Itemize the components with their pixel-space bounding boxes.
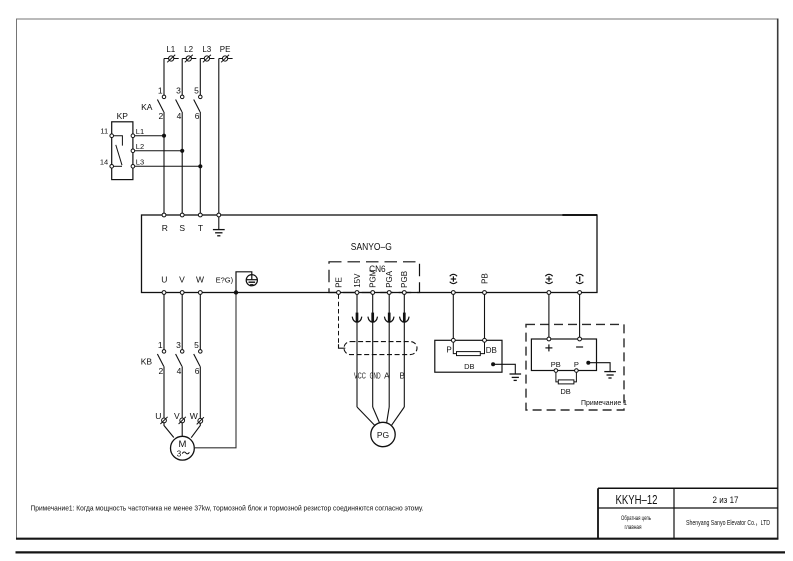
wire KA pole1 to inverter R (163, 112, 165, 215)
motor terminal V (174, 411, 186, 424)
svg-text:L2: L2 (136, 142, 144, 151)
svg-text:W: W (196, 275, 204, 285)
wire A into PG (387, 407, 390, 423)
svg-text:PGB: PGB (400, 271, 409, 288)
svg-text:5: 5 (194, 86, 199, 96)
svg-text:KKYH–12: KKYH–12 (616, 493, 658, 507)
svg-text:U: U (161, 275, 167, 285)
wire L2 drop to KA pole 2 (181, 59, 183, 96)
svg-text:L2: L2 (184, 45, 193, 54)
CN6 terminal PGM (371, 291, 375, 295)
brake resistor unit box (435, 340, 502, 372)
svg-text:V: V (174, 411, 180, 421)
svg-text:15V: 15V (353, 273, 362, 288)
contactor KA pole 2 (176, 95, 184, 112)
wire 15V to encoder (356, 294, 358, 407)
junction L3 (198, 164, 202, 168)
svg-text:L3: L3 (136, 158, 144, 167)
wire U into motor (164, 423, 174, 438)
svg-text:Примечание 1: Примечание 1 (581, 400, 627, 407)
svg-text:Shenyang Sanyo Elevator Co.，LT: Shenyang Sanyo Elevator Co.，LTD (686, 518, 770, 527)
relay KP box (112, 122, 133, 180)
brake box terminal P (446, 338, 455, 354)
wire (-) to external brake unit (579, 294, 581, 337)
wire PGM to encoder (372, 294, 374, 407)
svg-text:V: V (179, 275, 185, 285)
wire L1 drop to KA pole 1 (163, 59, 165, 96)
contactor KA pole 3 (194, 95, 202, 112)
svg-text:PE: PE (220, 45, 231, 54)
PE terminal into box (217, 213, 221, 217)
svg-text:3: 3 (176, 86, 181, 96)
svg-text:L3: L3 (202, 45, 211, 54)
svg-text:2: 2 (158, 366, 163, 376)
external brake PB terminal (554, 369, 558, 373)
svg-text:главная: главная (625, 524, 642, 531)
svg-text:M: M (178, 439, 186, 450)
terminal PB (483, 291, 487, 295)
svg-text:A: A (384, 372, 390, 381)
svg-text:Обратная цепь: Обратная цепь (621, 514, 651, 522)
wire KP L3 to T column (135, 165, 201, 167)
svg-text:Примечание1: Когда мощность ча: Примечание1: Когда мощность частотника н… (31, 503, 424, 512)
terminal T (198, 213, 203, 233)
terminal L3 (200, 45, 214, 62)
KP internal switch (114, 136, 123, 167)
svg-text:PB: PB (480, 273, 489, 284)
svg-text:5: 5 (194, 340, 199, 350)
wire E(G) to earth icon (236, 272, 252, 293)
svg-text:U: U (155, 411, 161, 421)
svg-text:W: W (190, 411, 198, 421)
KP pin 14 (100, 157, 114, 168)
wire KA pole2 to inverter S (181, 112, 183, 215)
svg-text:P: P (574, 360, 579, 369)
wire KB pole2 to motor V (181, 366, 183, 418)
motor M 3~ (171, 436, 195, 460)
wire KB pole1 to motor U (163, 366, 165, 418)
protective earth circle icon (246, 275, 257, 286)
wire PB to brake unit (484, 294, 486, 338)
wire (+) to external brake unit (548, 294, 550, 337)
KP pin L1 (131, 127, 144, 138)
wire brake box to ground (493, 364, 515, 374)
svg-text:P: P (446, 346, 451, 355)
wire GND into PG (373, 407, 380, 423)
terminal L2 (182, 45, 196, 62)
shielded cable dashed stadium (344, 342, 417, 355)
svg-text:SANYO–G: SANYO–G (351, 242, 392, 253)
terminal (+) left (451, 291, 455, 295)
external earth node (586, 361, 590, 365)
ground symbol at external box (604, 372, 616, 378)
svg-text:E?G): E?G) (216, 276, 234, 285)
terminal L1 (164, 45, 179, 62)
wire PGB to encoder (403, 294, 405, 407)
wire overlap on top edge (562, 214, 597, 216)
junction L1 (162, 134, 166, 138)
encoder PG (371, 422, 395, 446)
terminal PE (219, 45, 233, 62)
svg-text:1: 1 (158, 340, 163, 350)
terminal (-) label (576, 274, 583, 283)
motor terminal U (155, 411, 167, 424)
svg-text:R: R (162, 223, 168, 233)
contactor KB pole 1 (157, 350, 165, 367)
wire L3 drop to KA pole 3 (199, 59, 201, 96)
terminal (+) right (547, 291, 551, 295)
external brake terminal + (545, 337, 552, 351)
svg-text:PGM: PGM (369, 269, 378, 288)
svg-text:3: 3 (177, 449, 182, 458)
junction E(G) on box edge (234, 290, 238, 294)
wire KP L1 to R column (135, 135, 164, 137)
note 1 dashed box (526, 324, 624, 410)
wire W to KB pole 3 (199, 294, 201, 349)
plug connector on PGM wire (368, 313, 378, 323)
wire KP L2 to S column (135, 150, 183, 152)
terminal (-) (578, 291, 582, 295)
CN6 terminal PGA (387, 291, 391, 295)
wire KA pole3 to inverter T (199, 112, 201, 215)
svg-text:1: 1 (158, 86, 163, 96)
external resistor DB (558, 380, 574, 384)
svg-text:6: 6 (195, 111, 200, 121)
plug connector on 15V wire (352, 313, 362, 323)
svg-text:DB: DB (486, 346, 497, 355)
contactor KB pole 2 (176, 350, 184, 367)
resistor DB in brake box (457, 352, 481, 356)
svg-text:PGA: PGA (385, 270, 394, 288)
svg-text:PE: PE (334, 277, 343, 288)
terminal S (179, 213, 185, 233)
CN6 terminal PE (337, 291, 341, 295)
wire PE drop to inverter R-side ground (218, 59, 220, 216)
ground symbol at brake box (510, 374, 522, 380)
svg-text:PB: PB (551, 360, 561, 369)
ground symbol inside inverter (213, 217, 225, 236)
KP pin L3 (131, 158, 144, 169)
terminal (+) right label (545, 274, 552, 283)
brake box terminal DB (483, 338, 497, 355)
svg-text:14: 14 (100, 157, 108, 166)
svg-text:B: B (400, 372, 405, 381)
terminal U (161, 275, 167, 295)
wire W into motor (191, 423, 200, 438)
wire V into motor (181, 423, 183, 437)
svg-text:VCC: VCC (354, 372, 366, 381)
terminal R (162, 213, 168, 233)
CN6 terminal PGB (402, 291, 406, 295)
svg-text:L1: L1 (166, 45, 175, 54)
title block (598, 488, 778, 539)
KP pin 11 (100, 127, 113, 138)
plug connector on PGA wire (384, 313, 394, 323)
svg-text:DB: DB (560, 387, 570, 396)
dashed PE shield wire (338, 294, 340, 345)
connector CN6 dashed outline (329, 262, 420, 293)
external brake P terminal (575, 369, 579, 373)
wire external box to ground (588, 363, 610, 372)
external resistor leads (556, 372, 577, 382)
svg-text:KP: KP (117, 111, 129, 121)
svg-text:GND: GND (370, 372, 381, 381)
external brake terminal - (576, 337, 583, 347)
brake box earth node (491, 362, 495, 366)
wire VCC into PG (357, 407, 375, 425)
svg-text:2 из 17: 2 из 17 (713, 495, 739, 505)
plug connector on PGB wire (400, 313, 410, 323)
resistor leads in brake box (453, 342, 484, 353)
wire KB pole3 to motor W (199, 366, 201, 418)
svg-text:DB: DB (464, 362, 474, 371)
terminal W (196, 275, 204, 295)
motor terminal W (190, 411, 204, 425)
svg-text:2: 2 (158, 111, 163, 121)
wire PGA to encoder (388, 294, 390, 407)
wire V to KB pole 2 (181, 294, 183, 349)
CN6 terminal 15V (355, 291, 359, 295)
svg-text:4: 4 (177, 111, 182, 121)
svg-text:T: T (198, 223, 203, 233)
wire (+) to brake unit (452, 294, 454, 338)
junction L2 (180, 149, 184, 153)
svg-text:L1: L1 (136, 127, 144, 136)
wire U to KB pole 1 (163, 294, 165, 349)
svg-text:11: 11 (100, 127, 108, 136)
svg-text:3: 3 (176, 340, 181, 350)
external brake unit box (531, 339, 596, 371)
svg-text:PG: PG (377, 430, 389, 440)
contactor KB pole 3 (194, 350, 202, 367)
svg-text:4: 4 (177, 366, 182, 376)
svg-text:KA: KA (141, 102, 153, 112)
svg-text:6: 6 (195, 366, 200, 376)
wire motor frame to E(G) (194, 294, 236, 447)
svg-text:S: S (179, 223, 185, 233)
svg-text:KB: KB (141, 357, 153, 367)
wire B into PG (392, 407, 405, 425)
inverter SANYO-G box (142, 215, 598, 293)
contactor KA pole 1 (157, 95, 165, 112)
terminal (+) left label (450, 274, 457, 283)
terminal V (179, 275, 185, 295)
KP pin L2 (131, 142, 144, 153)
